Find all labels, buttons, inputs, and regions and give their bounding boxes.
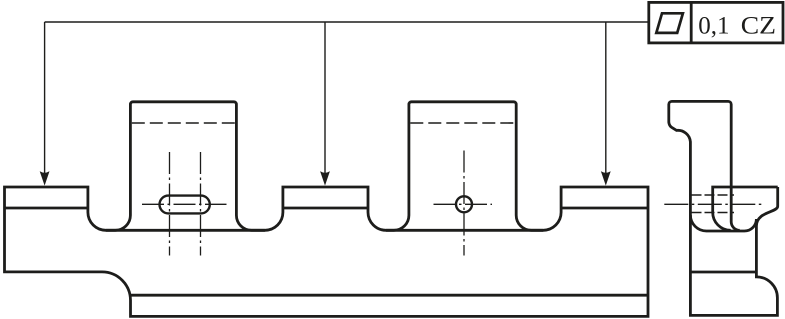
front view outer outline (5, 102, 649, 317)
svg-text:0,1: 0,1 (698, 13, 729, 40)
side view hidden line slot top (692, 194, 735, 196)
side view base step line (690, 271, 756, 274)
slot (obround) in tower 1 (160, 196, 210, 214)
pad 1 base junction line (5, 207, 88, 210)
leader drop wire 2 (324, 22, 326, 173)
hole circle in tower 2 (456, 196, 472, 212)
side view pad top and left edge with fillet (713, 187, 778, 230)
center line hole horizontal (434, 203, 493, 205)
side view center line (664, 203, 762, 205)
pad 2 base junction line (283, 207, 368, 210)
pad 3 base junction line (561, 207, 648, 210)
side view hidden line slot bottom (692, 212, 735, 214)
center line slot left arc (169, 152, 171, 256)
leader drop wire 1 (44, 22, 46, 173)
groove bottom line under tower 1 (106, 229, 265, 232)
side view groove silhouette (690, 215, 756, 231)
groove bottom line under tower 2 (386, 229, 543, 232)
feature control frame divider (690, 2, 693, 43)
flatness symbol (parallelogram) (656, 13, 683, 33)
arrowhead 1 (40, 171, 50, 185)
leader drop wire 3 (605, 22, 607, 173)
center line slot horizontal (142, 203, 227, 205)
hidden line tower 2 (410, 122, 515, 124)
arrowhead 3 (601, 171, 611, 185)
hidden line tower 1 (132, 122, 235, 124)
center line slot right arc (200, 152, 202, 256)
svg-text:CZ: CZ (741, 13, 776, 40)
center line hole vertical (463, 151, 465, 256)
arrowhead 2 (320, 171, 330, 185)
feature control frame box (649, 2, 783, 43)
leader line horizontal to feature control frame (45, 21, 648, 23)
base strip top line (131, 294, 649, 297)
side view outer outline (669, 101, 778, 315)
